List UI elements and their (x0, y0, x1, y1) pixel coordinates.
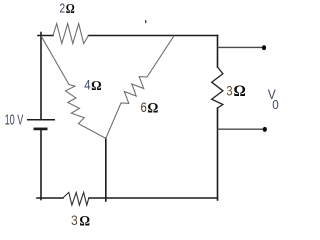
svg-text:2: 2 (60, 1, 66, 16)
svg-text:Ω: Ω (66, 2, 75, 17)
svg-text:0: 0 (272, 98, 279, 112)
svg-text:4: 4 (84, 78, 91, 93)
svg-text:10 V: 10 V (5, 112, 24, 129)
svg-text:Ω: Ω (147, 100, 158, 116)
svg-text:Ω: Ω (79, 214, 90, 230)
svg-text:3: 3 (226, 82, 232, 98)
svg-text:Ω: Ω (91, 79, 102, 94)
svg-text:Ω: Ω (234, 83, 246, 100)
svg-text:6: 6 (141, 100, 147, 115)
svg-text:3: 3 (71, 212, 78, 228)
